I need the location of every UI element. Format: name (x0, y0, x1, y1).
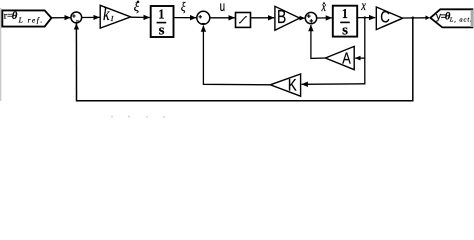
label u (220, 0, 225, 14)
wire saturation to gain B (251, 17, 274, 19)
input tag r=theta_L_ref (2, 10, 51, 27)
wire S1 to gain kI (82, 16, 100, 18)
svg-text:B: B (277, 7, 286, 27)
svg-text:L, act.: L, act. (449, 17, 473, 24)
wire I2 to gain C with node (357, 17, 375, 19)
saturation block (236, 13, 251, 28)
wire from x vertical to gain A (355, 57, 365, 59)
gain K triangle (270, 74, 300, 96)
svg-text:s: s (159, 23, 165, 39)
wire S3 to integrator I2 (317, 17, 332, 19)
svg-text:k: k (103, 6, 110, 25)
svg-text:I: I (110, 14, 114, 23)
summing junction S2 (197, 11, 210, 24)
svg-text:ξ: ξ (181, 0, 186, 14)
label x (361, 0, 367, 13)
wire B to sum S3 (300, 17, 305, 19)
output tag y=theta_L_act (430, 9, 473, 27)
node on output wire (412, 17, 415, 20)
summing junction S3 (305, 12, 316, 23)
label x-dot (321, 0, 327, 15)
scan artifact: faint dots at bottom (111, 116, 165, 119)
svg-text:u: u (220, 0, 225, 14)
wire S2 to saturation block (210, 17, 235, 19)
vertical wire from output node down (outer loop right side) (412, 18, 414, 101)
wire K loop horizontal into gain K (302, 83, 366, 86)
vertical wire from x node down to K loop (364, 18, 366, 84)
svg-text:K: K (288, 76, 297, 95)
label xi (181, 0, 186, 14)
scan artifact: faint grey band at left edge (0, 8, 1, 101)
svg-text:L ref.: L ref. (18, 16, 44, 25)
gain kI triangle (100, 5, 130, 28)
svg-text:1: 1 (342, 6, 348, 21)
integrator I2 block 1/s (333, 6, 357, 39)
svg-text:C: C (380, 8, 390, 27)
summing junction S1 (71, 12, 82, 23)
integrator I1 block 1/s (151, 6, 174, 39)
outer loop left vertical wire into S1 (75, 23, 77, 101)
wire A to corner below S3 (311, 25, 326, 58)
wire kI to integrator I1 (131, 16, 150, 18)
gain C triangle (376, 7, 402, 30)
svg-text:s: s (342, 23, 348, 39)
svg-text:θ: θ (12, 10, 18, 22)
svg-text:A: A (342, 50, 351, 68)
wire input tag to sum S1 (51, 17, 70, 19)
wire K to corner below S2 and up into S2 (203, 26, 270, 85)
label xi-dot (134, 0, 140, 14)
gain A triangle (325, 46, 354, 69)
svg-text:x: x (321, 0, 327, 15)
outer loop bottom wire (76, 100, 414, 102)
svg-text:x: x (361, 0, 367, 13)
gain B triangle (275, 6, 300, 30)
node on x wire (364, 16, 366, 18)
wire I1 to sum S2 (174, 17, 196, 19)
wire C to output tag (403, 15, 430, 20)
svg-text:1: 1 (158, 7, 164, 22)
